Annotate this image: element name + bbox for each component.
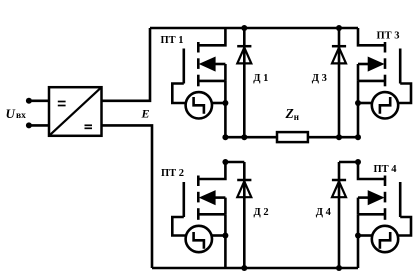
load row wire left (225, 136, 277, 139)
label D4 (316, 207, 332, 218)
input terminal bottom (26, 122, 32, 128)
transistor PT3 gate bar (399, 49, 402, 84)
junction D3 top (336, 25, 342, 31)
wire G2 to source (212, 234, 225, 237)
transistor PT3 drain wire (358, 28, 385, 45)
transistor PT1 gate bar (183, 49, 186, 84)
svg-text:Д 3: Д 3 (312, 73, 327, 84)
DC-DC converter U1 (49, 87, 102, 136)
junction D3 bottom (336, 134, 342, 140)
junction PT1 source row (222, 134, 228, 140)
junction PT3 source row (355, 134, 361, 140)
transistor PT2 drain wire (198, 162, 225, 179)
diode D4 (332, 162, 346, 268)
svg-text:Д 4: Д 4 (316, 207, 332, 218)
transistor PT3 channel (384, 42, 387, 86)
transistor PT3 source wire (358, 81, 385, 137)
transistor PT4 channel (384, 176, 387, 220)
svg-text:E: E (141, 107, 150, 121)
label PT3 (377, 31, 400, 42)
svg-text:Zн: Zн (285, 106, 299, 122)
label PT4 (374, 164, 398, 175)
transistor PT3 gate lead (398, 84, 411, 104)
wire E positive output (102, 28, 151, 101)
top rail (150, 27, 358, 30)
transistor PT2 channel (197, 176, 200, 220)
junction D4 bottom (336, 265, 342, 271)
transistor PT4 source wire (358, 214, 385, 268)
transistor PT2 gate lead (172, 217, 185, 236)
svg-text:Д 2: Д 2 (254, 207, 269, 218)
label PT1 (161, 35, 184, 46)
transistor PT1 channel (197, 42, 200, 86)
junction PT2 source-gate return (222, 233, 228, 239)
label D2 (254, 207, 269, 218)
junction PT4 source-gate return (355, 233, 361, 239)
bottom rail (152, 267, 358, 270)
wire G3 to source (358, 102, 372, 105)
transistor PT3 substrate arrow (358, 57, 383, 81)
wire input bottom (29, 124, 49, 127)
transistor PT1 source wire (198, 81, 225, 137)
svg-text:Д 1: Д 1 (253, 73, 268, 84)
transistor PT4 substrate arrow (358, 191, 383, 214)
transistor PT2 gate bar (183, 182, 186, 217)
pulse generator G4 (372, 226, 398, 252)
transistor PT1 drain wire (198, 28, 225, 45)
transistor PT4 drain wire (358, 162, 385, 179)
pulse generator G2 (186, 226, 212, 252)
svg-text:ПТ 2: ПТ 2 (161, 168, 184, 179)
junction D2 bottom (241, 265, 247, 271)
svg-text:ПТ 1: ПТ 1 (161, 35, 184, 46)
label D1 (253, 73, 268, 84)
load row wire right (308, 136, 358, 139)
svg-text:ПТ 3: ПТ 3 (377, 31, 400, 42)
transistor PT2 source wire (198, 214, 225, 268)
label Z_n (285, 106, 299, 122)
diode D3 (332, 28, 346, 137)
label U_vx (6, 106, 27, 121)
diode D1 (237, 28, 251, 137)
junction D1 top (241, 25, 247, 31)
junction PT1 source-gate return (222, 100, 228, 106)
wire G1 to source (212, 102, 225, 105)
lower row wire left (225, 161, 244, 164)
transistor PT4 gate bar (399, 182, 402, 217)
svg-text:U: U (6, 106, 16, 121)
pulse generator G1 (186, 92, 212, 118)
svg-text:ПТ 4: ПТ 4 (374, 164, 398, 175)
wire E negative output (102, 125, 153, 268)
pulse generator G3 (372, 92, 398, 118)
load Z_n (277, 132, 308, 142)
junction D1 bottom (241, 134, 247, 140)
lower row wire right (339, 161, 358, 164)
junction PT2 drain (222, 159, 228, 165)
junction PT3 source-gate return (355, 100, 361, 106)
wire G4 to source (358, 234, 372, 237)
transistor PT2 substrate arrow (200, 191, 225, 214)
input terminal top (26, 98, 32, 104)
label PT2 (161, 168, 184, 179)
label D3 (312, 73, 327, 84)
svg-text:вх: вх (16, 111, 26, 121)
diode D2 (237, 162, 251, 268)
transistor PT4 gate lead (398, 217, 411, 236)
junction PT4 drain (355, 159, 361, 165)
wire input top (29, 100, 49, 103)
label E (141, 107, 150, 121)
transistor PT1 substrate arrow (200, 57, 225, 81)
transistor PT1 gate lead (172, 84, 185, 104)
